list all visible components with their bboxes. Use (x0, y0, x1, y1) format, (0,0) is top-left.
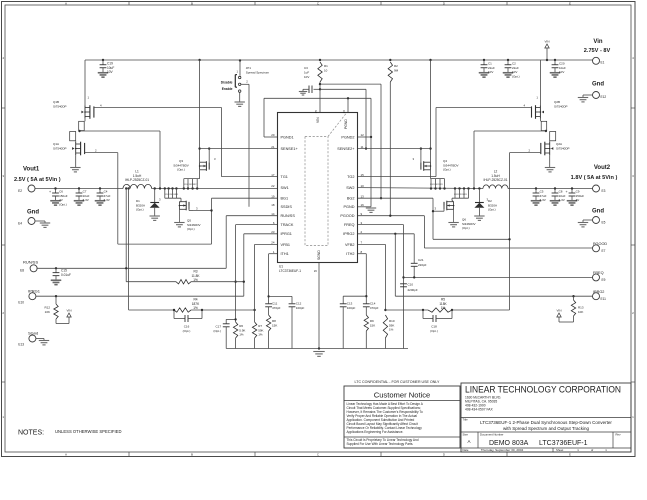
svg-text:1%: 1% (258, 333, 263, 337)
svg-text:22: 22 (271, 184, 275, 188)
svg-text:E5: E5 (602, 221, 606, 225)
svg-text:E4: E4 (18, 222, 22, 226)
svg-text:Spread Spectrum: Spread Spectrum (246, 71, 270, 75)
svg-text:with Spread Spectrum and Outpu: with Spread Spectrum and Output Tracking (503, 426, 590, 431)
svg-text:408-434-0507 FAX: 408-434-0507 FAX (465, 408, 493, 412)
svg-text:Title: Title (463, 418, 469, 422)
svg-text:(Opt.): (Opt.) (136, 208, 144, 212)
svg-text:PGND: PGND (344, 119, 348, 129)
svg-text:16: 16 (361, 203, 365, 207)
svg-text:E7: E7 (602, 249, 606, 253)
svg-text:E: E (569, 1, 571, 5)
svg-text:SSDIS: SSDIS (281, 205, 293, 209)
svg-text:ITH2: ITH2 (346, 252, 354, 256)
svg-text:B: B (191, 453, 193, 457)
svg-text:LTC3736EUF-1: LTC3736EUF-1 (539, 440, 588, 447)
svg-text:(Opt.): (Opt.) (430, 329, 438, 333)
svg-text:6.3V: 6.3V (83, 198, 89, 202)
svg-text:PGND2: PGND2 (341, 135, 354, 139)
svg-text:12: 12 (361, 133, 365, 137)
svg-text:R20R19R18R17: R20R19R18R17 (184, 184, 197, 186)
svg-text:15: 15 (361, 173, 365, 177)
svg-text:PGND: PGND (344, 205, 355, 209)
svg-text:PGND1: PGND1 (281, 135, 294, 139)
svg-text:Customer Notice: Customer Notice (374, 391, 431, 400)
svg-text:R2: R2 (394, 64, 398, 68)
svg-text:+: + (49, 190, 51, 194)
svg-text:0.01uF: 0.01uF (61, 273, 71, 277)
svg-text:6.3V: 6.3V (540, 198, 546, 202)
svg-text:(Opt.): (Opt.) (177, 168, 185, 172)
svg-text:1%: 1% (389, 328, 394, 332)
svg-text:LTC3736EUF-1 2-Phase Dual Syn: LTC3736EUF-1 2-Phase Dual Synchronous St… (480, 420, 612, 425)
svg-text:+: + (566, 190, 568, 194)
svg-text:25: 25 (314, 110, 318, 114)
svg-text:DEMO 803A: DEMO 803A (489, 440, 529, 447)
svg-text:FREQ: FREQ (344, 223, 355, 227)
svg-text:14: 14 (271, 212, 275, 216)
svg-text:100pF: 100pF (347, 306, 356, 310)
svg-text:1%: 1% (193, 278, 198, 282)
svg-text:A: A (65, 453, 67, 457)
svg-text:10V: 10V (107, 70, 114, 74)
svg-text:C10: C10 (408, 283, 414, 287)
svg-text:A: A (65, 1, 67, 5)
svg-text:SENSE2+: SENSE2+ (337, 147, 355, 151)
svg-text:Si7540DP: Si7540DP (53, 146, 67, 150)
svg-text:TG1: TG1 (281, 175, 288, 179)
svg-text:1.8V ( 5A at 5Vin ): 1.8V ( 5A at 5Vin ) (571, 175, 618, 181)
svg-text:220pF: 220pF (418, 263, 427, 267)
svg-text:Enable: Enable (222, 87, 233, 91)
svg-text:2.75V - 8V: 2.75V - 8V (584, 48, 611, 54)
svg-text:Si7540DP: Si7540DP (53, 104, 67, 108)
svg-text:6.3V: 6.3V (559, 198, 565, 202)
svg-text:10V: 10V (304, 75, 309, 79)
svg-text:of: of (591, 448, 594, 452)
svg-text:10V: 10V (488, 70, 493, 74)
svg-text:Size: Size (463, 433, 469, 437)
svg-text:470pF: 470pF (272, 306, 281, 310)
svg-text:U1: U1 (279, 265, 283, 269)
svg-text:15K: 15K (370, 323, 375, 327)
svg-text:1%: 1% (193, 306, 198, 310)
svg-text:Vout2: Vout2 (594, 165, 611, 171)
svg-text:B: B (191, 1, 193, 5)
svg-text:(Opt.): (Opt.) (488, 208, 496, 212)
svg-text:(Opt.): (Opt.) (213, 329, 221, 333)
svg-text:2200pF: 2200pF (408, 288, 418, 292)
svg-text:470pF: 470pF (370, 306, 379, 310)
svg-text:E9: E9 (602, 278, 606, 282)
svg-text:(Opt.): (Opt.) (462, 226, 470, 230)
svg-text:10K: 10K (45, 310, 50, 314)
svg-text:1%: 1% (239, 333, 244, 337)
svg-text:Sheet: Sheet (556, 448, 564, 452)
svg-text:21: 21 (271, 145, 275, 149)
svg-text:Si7540DP: Si7540DP (554, 104, 568, 108)
svg-text:Disable: Disable (221, 80, 233, 84)
svg-text:IPRG1: IPRG1 (28, 289, 41, 294)
svg-text:(Opt.): (Opt.) (512, 74, 520, 78)
svg-text:23: 23 (271, 230, 275, 234)
svg-text:RUN/SS: RUN/SS (23, 260, 38, 265)
svg-text:10: 10 (324, 69, 328, 73)
svg-text:11: 11 (361, 145, 364, 149)
svg-text:SGND: SGND (317, 250, 321, 260)
svg-text:Vout1: Vout1 (23, 167, 40, 173)
svg-text:Si7540DP: Si7540DP (556, 146, 570, 150)
svg-text:E3: E3 (602, 189, 606, 193)
svg-text:24: 24 (271, 241, 275, 245)
svg-text:Gnd: Gnd (27, 210, 39, 216)
svg-text:(Opt.): (Opt.) (443, 168, 451, 172)
svg-text:E11: E11 (601, 297, 607, 301)
svg-text:19: 19 (271, 194, 275, 198)
svg-text:100pF: 100pF (296, 306, 305, 310)
svg-text:1%: 1% (441, 306, 446, 310)
svg-text:Rev: Rev (616, 433, 622, 437)
svg-text:NOTES:: NOTES: (18, 430, 44, 437)
svg-text:1uF: 1uF (304, 71, 309, 75)
svg-text:E10: E10 (18, 301, 24, 305)
svg-text:VIN: VIN (316, 117, 320, 123)
svg-text:Thursday, September 30, 2004: Thursday, September 30, 2004 (481, 448, 524, 452)
svg-text:LTC CONFIDENTIAL - FOR CUSTOME: LTC CONFIDENTIAL - FOR CUSTOMER USE ONLY (355, 380, 441, 384)
svg-text:RUN/SS: RUN/SS (281, 214, 296, 218)
svg-text:4V: 4V (576, 198, 580, 202)
svg-text:Vin: Vin (593, 39, 603, 45)
svg-text:IPRG1: IPRG1 (281, 232, 292, 236)
svg-text:R24R23R22R21: R24R23R22R21 (430, 184, 443, 186)
svg-text:20: 20 (271, 133, 275, 137)
svg-text:2.5V ( 5A at 5Vin ): 2.5V ( 5A at 5Vin ) (14, 177, 61, 183)
svg-text:26: 26 (342, 110, 346, 114)
svg-text:15K: 15K (272, 323, 277, 327)
svg-text:LTC3736EUF-1: LTC3736EUF-1 (279, 269, 301, 273)
svg-text:VIN: VIN (544, 40, 549, 44)
svg-text:Applications Engineering For A: Applications Engineering For Assistance. (347, 430, 404, 434)
svg-text:Gnd: Gnd (592, 209, 604, 215)
svg-text:IHLP-2525CZ-01: IHLP-2525CZ-01 (483, 178, 507, 182)
svg-text:17: 17 (271, 173, 275, 177)
svg-text:SENSE1+: SENSE1+ (281, 147, 299, 151)
svg-text:VIN: VIN (556, 309, 561, 313)
svg-text:E: E (569, 453, 571, 457)
svg-text:VFB2: VFB2 (345, 243, 355, 247)
svg-text:IPRG2: IPRG2 (343, 232, 354, 236)
svg-text:PGOOD: PGOOD (340, 214, 354, 218)
svg-text:VFB1: VFB1 (281, 243, 291, 247)
svg-text:SW1: SW1 (281, 186, 289, 190)
svg-text:10V: 10V (559, 70, 564, 74)
svg-text:A: A (467, 439, 470, 444)
svg-text:E1: E1 (601, 61, 605, 65)
svg-text:Document Number: Document Number (480, 433, 504, 437)
svg-text:13: 13 (361, 194, 365, 198)
svg-text:R28R27R26R25: R28R27R26R25 (454, 194, 467, 196)
svg-text:E13: E13 (18, 343, 24, 347)
svg-text:VIN: VIN (66, 309, 71, 313)
svg-text:IHLP-2525CZ-01: IHLP-2525CZ-01 (125, 178, 149, 182)
svg-text:Supplied For Use With Linear T: Supplied For Use With Linear Technology … (347, 442, 414, 446)
svg-text:C21: C21 (418, 258, 424, 262)
svg-text:JP1: JP1 (246, 66, 252, 70)
svg-text:ITH1: ITH1 (281, 252, 289, 256)
svg-text:R1: R1 (324, 64, 328, 68)
svg-text:(Opt.): (Opt.) (59, 202, 67, 206)
svg-text:C3: C3 (304, 66, 308, 70)
svg-text:Gnd: Gnd (592, 82, 604, 88)
svg-text:18: 18 (271, 203, 275, 207)
svg-text:10K: 10K (578, 310, 583, 314)
svg-text:E2: E2 (18, 189, 22, 193)
svg-text:E12: E12 (601, 95, 607, 99)
svg-text:LINEAR TECHNOLOGY CORPORATION: LINEAR TECHNOLOGY CORPORATION (465, 385, 621, 395)
svg-text:10: 10 (361, 184, 365, 188)
svg-text:6.3V: 6.3V (104, 198, 110, 202)
svg-text:(Opt.): (Opt.) (187, 227, 195, 231)
svg-text:Date: Date (463, 448, 469, 452)
svg-text:9M: 9M (394, 69, 399, 73)
svg-text:E8: E8 (20, 269, 24, 273)
svg-text:R16R15R14R13: R16R15R14R13 (165, 194, 178, 196)
svg-text:UNLESS OTHERWISE SPECIFIED: UNLESS OTHERWISE SPECIFIED (55, 429, 121, 434)
svg-text:TG2: TG2 (347, 175, 354, 179)
svg-text:BG2: BG2 (347, 197, 355, 201)
svg-text:BG1: BG1 (281, 197, 289, 201)
svg-text:SW2: SW2 (346, 186, 354, 190)
svg-text:TRACK: TRACK (281, 223, 294, 227)
svg-text:(Opt.): (Opt.) (183, 329, 191, 333)
